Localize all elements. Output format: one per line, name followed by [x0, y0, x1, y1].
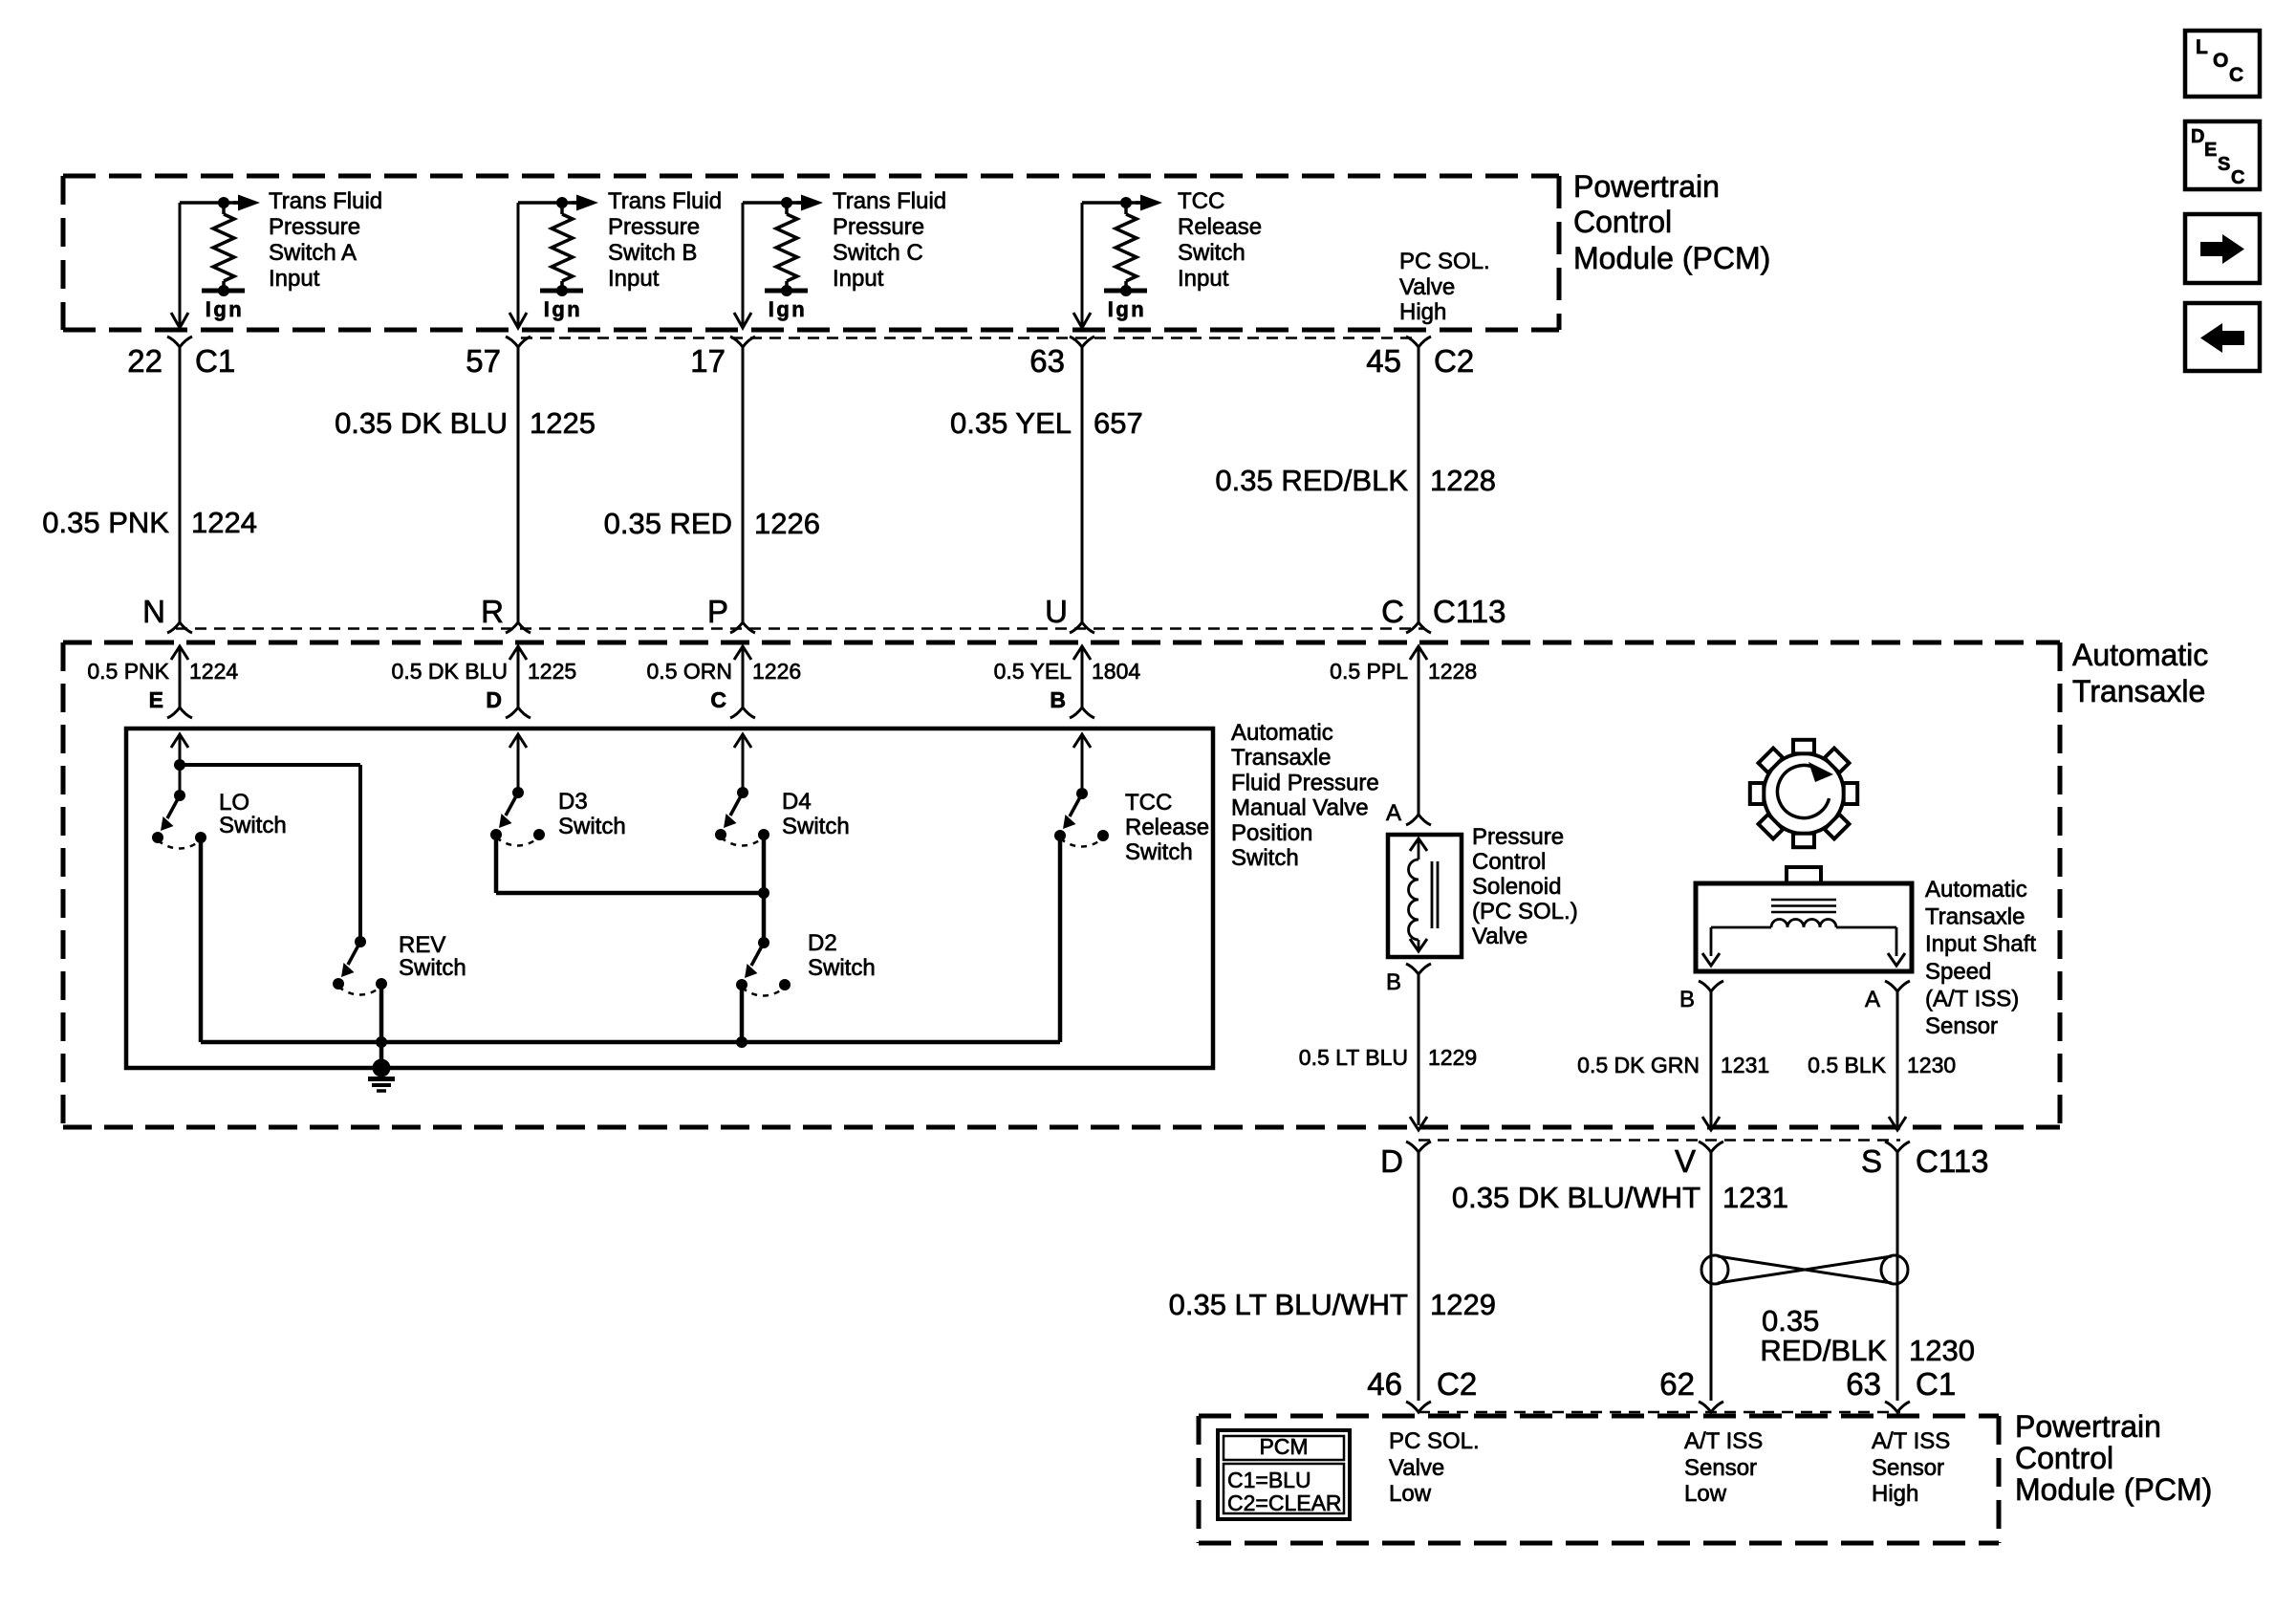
svg-text:Switch: Switch: [558, 814, 626, 839]
svg-text:A/T ISS: A/T ISS: [1872, 1428, 1950, 1454]
svg-text:Pressure: Pressure: [269, 214, 360, 240]
svg-text:1224: 1224: [189, 659, 238, 684]
label: Ign: [769, 297, 808, 321]
label: 0.5 PPL: [1330, 659, 1408, 684]
svg-text:Module (PCM): Module (PCM): [1573, 241, 1770, 275]
junction dot at resistor bottom: [781, 285, 792, 296]
svg-text:A: A: [1386, 800, 1401, 826]
svg-text:17: 17: [690, 343, 726, 379]
svg-text:45: 45: [1366, 343, 1401, 379]
label: pin V: [1675, 1143, 1696, 1179]
junction dot at resistor bottom: [556, 285, 568, 296]
svg-text:C1=BLU: C1=BLU: [1227, 1468, 1311, 1492]
svg-text:Powertrain: Powertrain: [1573, 169, 1720, 204]
svg-text:0.35 YEL: 0.35 YEL: [950, 406, 1072, 440]
label: circuit 1230: [1907, 1053, 1956, 1077]
svg-text:D4: D4: [782, 789, 812, 815]
svg-text:High: High: [1399, 299, 1446, 325]
twisted pair symbol: [1701, 1255, 1908, 1284]
svg-text:1226: 1226: [752, 659, 801, 684]
wire: PCM internal feed, Trans Fluid Switch B: [518, 203, 577, 326]
svg-text:Position: Position: [1231, 820, 1312, 846]
connector C113 pin fork (wire 657): [1070, 622, 1094, 633]
svg-text:Solenoid: Solenoid: [1472, 874, 1561, 900]
svg-text:PC SOL.: PC SOL.: [1389, 1428, 1480, 1454]
junction node (LO switch / REV switch branch): [174, 759, 185, 771]
label: circuit 1224: [189, 659, 238, 684]
svg-text:PC SOL.: PC SOL.: [1399, 249, 1490, 274]
D4 Switch: [715, 787, 769, 846]
svg-text:C: C: [1381, 594, 1404, 629]
label: pin R: [481, 594, 504, 629]
label: sensor pin A: [1865, 987, 1880, 1012]
label: 0.35 RED: [604, 507, 732, 540]
svg-text:0.35 DK BLU/WHT: 0.35 DK BLU/WHT: [1452, 1181, 1700, 1214]
svg-text:Sensor: Sensor: [1925, 1013, 1998, 1039]
label: REV Switch: [399, 932, 466, 981]
svg-text:Trans Fluid: Trans Fluid: [608, 188, 722, 214]
svg-text:Transaxle: Transaxle: [2072, 674, 2205, 708]
pin A fork (ISS sensor): [1885, 981, 1910, 991]
label: Ign: [1108, 297, 1147, 321]
TCC Release Switch (transaxle): [1054, 788, 1109, 847]
label: circuit 1226: [752, 659, 801, 684]
wire: D2 left contact to ground bus: [740, 985, 745, 1042]
label: connector C2 (bottom): [1437, 1366, 1477, 1402]
svg-text:C113: C113: [1916, 1143, 1988, 1179]
svg-text:657: 657: [1094, 406, 1143, 440]
svg-text:22: 22: [127, 343, 162, 379]
svg-text:C1: C1: [195, 343, 235, 379]
wire wire 1226 0.35 RED: [742, 347, 745, 622]
label: circuit 1225: [528, 659, 576, 684]
connector line C113 (thin dashed, bottom): [1419, 1139, 1900, 1142]
Automatic Transaxle box: [63, 642, 2060, 1127]
label: connector C2: [1434, 343, 1474, 379]
label: connector C1 (bottom): [1916, 1366, 1956, 1402]
svg-text:0.5 DK GRN: 0.5 DK GRN: [1577, 1053, 1700, 1077]
label: LO Switch: [219, 790, 287, 838]
pin V fork: [1699, 1142, 1723, 1152]
svg-text:D: D: [2191, 126, 2204, 147]
svg-text:R: R: [481, 594, 504, 629]
svg-text:1230: 1230: [1909, 1334, 1975, 1367]
connector pin 57 fork: [506, 337, 531, 347]
svg-text:C: C: [710, 687, 726, 712]
arrow to Trans Fluid Pressure Switch B Input: [572, 195, 598, 211]
svg-text:D: D: [486, 687, 502, 712]
label: TCC Release Switch Input: [1178, 188, 1262, 292]
D2 Switch: [736, 937, 791, 996]
svg-text:Switch: Switch: [1125, 839, 1193, 865]
svg-text:0.5 BLK: 0.5 BLK: [1808, 1053, 1886, 1077]
svg-text:Switch A: Switch A: [269, 240, 357, 266]
REV Switch: [333, 936, 387, 995]
svg-text:46: 46: [1367, 1366, 1402, 1402]
junction dot at resistor top: [218, 197, 229, 208]
junction dot D2/bus: [736, 1036, 747, 1048]
wire: PCM internal feed, Trans Fluid Switch C: [743, 203, 802, 326]
svg-text:Ign: Ign: [1108, 297, 1147, 321]
label: Trans Fluid Pressure Switch A Input: [269, 188, 382, 292]
label: pin 63: [1029, 343, 1065, 379]
connector C113 pin fork (wire 1224): [167, 622, 192, 633]
svg-text:B: B: [1679, 987, 1695, 1012]
PCM pin 63 fork: [1885, 1402, 1910, 1412]
svg-text:63: 63: [1029, 343, 1065, 379]
wire 1231 0.35 DK BLU/WHT: [1710, 1152, 1713, 1401]
label: Trans Fluid Pressure Switch B Input: [608, 188, 722, 292]
svg-text:1231: 1231: [1721, 1053, 1769, 1077]
Ign supply bar: [540, 289, 583, 294]
arrow: wire 1224 enters transaxle: [171, 646, 188, 707]
LO Switch: [152, 790, 206, 849]
PCM module box (top): [63, 176, 1559, 330]
label: C2=CLEAR: [1227, 1490, 1342, 1515]
svg-text:Input: Input: [1178, 266, 1229, 292]
label: D2 Switch: [808, 930, 876, 981]
label: PC SOL. Valve Low: [1389, 1428, 1480, 1507]
label: circuit 1230 (lower): [1909, 1334, 1975, 1367]
label: pin 63: [1846, 1366, 1881, 1402]
svg-text:Transaxle: Transaxle: [1231, 745, 1331, 771]
svg-text:1225: 1225: [530, 406, 596, 440]
A/T ISS sensor body: [1696, 867, 1912, 971]
label: circuit 1231: [1721, 1053, 1769, 1077]
label: Trans Fluid Pressure Switch C Input: [833, 188, 946, 292]
svg-text:1224: 1224: [191, 506, 257, 539]
label: circuit 657: [1094, 406, 1143, 440]
svg-text:Switch: Switch: [808, 955, 876, 981]
label: 0.5 DK BLU: [392, 659, 508, 684]
label: circuit 1225: [530, 406, 596, 440]
label: pin B: [1386, 969, 1401, 995]
wire: ground bus: [201, 1040, 1060, 1045]
arrow to Trans Fluid Pressure Switch A Input: [233, 195, 260, 211]
pin D fork: [1406, 1142, 1431, 1152]
LOC icon box: [2185, 31, 2260, 97]
connector line C1/C2 (thin dashed, bottom): [1419, 1411, 1900, 1414]
svg-text:O: O: [2213, 50, 2228, 72]
label: RED/BLK: [1760, 1334, 1887, 1367]
wire: D4 right contact down to D2 switch: [762, 835, 767, 943]
label: PCM (legend): [1259, 1434, 1308, 1459]
svg-text:V: V: [1675, 1143, 1696, 1179]
ground: [368, 1042, 395, 1091]
svg-text:U: U: [1045, 594, 1068, 629]
svg-text:1229: 1229: [1430, 1288, 1496, 1321]
pin C fork: [730, 707, 755, 718]
PCM connector legend box: [1218, 1430, 1350, 1519]
wire: PCM internal feed, TCC Switch: [1082, 203, 1141, 326]
wire: pin E into LO switch: [171, 734, 188, 795]
junction dot at resistor top: [1120, 197, 1132, 208]
connector line C113 (thin dashed, top): [176, 627, 1424, 630]
label: pin U: [1045, 594, 1068, 629]
svg-text:Fluid Pressure: Fluid Pressure: [1231, 770, 1379, 795]
connector pin 63 fork: [1070, 337, 1094, 347]
svg-text:High: High: [1872, 1481, 1918, 1507]
arrow: wire 1230 exits transaxle: [1889, 1117, 1906, 1130]
label: C1=BLU: [1227, 1468, 1311, 1492]
PCM pin 46 fork: [1406, 1402, 1431, 1412]
svg-text:Release: Release: [1178, 214, 1262, 240]
svg-text:Pressure: Pressure: [833, 214, 924, 240]
wire: PCM internal feed, Trans Fluid Switch A: [180, 203, 239, 326]
label: pin S: [1861, 1143, 1882, 1179]
label: circuit 1228: [1428, 659, 1477, 684]
DESC icon box: [2185, 121, 2260, 189]
label: D3 Switch: [558, 789, 626, 839]
wire 1230 0.35 RED/BLK: [1896, 1152, 1899, 1401]
svg-text:A/T ISS: A/T ISS: [1684, 1428, 1763, 1454]
junction dot at resistor bottom: [218, 285, 229, 296]
svg-text:D3: D3: [558, 789, 588, 815]
arrow to TCC Release Switch Input: [1136, 195, 1162, 211]
arrow: wire 1229 exits transaxle: [1410, 1117, 1427, 1130]
svg-text:1226: 1226: [754, 507, 820, 540]
svg-text:C: C: [2229, 64, 2243, 86]
svg-text:0.5 LT BLU: 0.5 LT BLU: [1299, 1045, 1408, 1070]
label: circuit 1229 (lower): [1430, 1288, 1496, 1321]
arrow: wire exits PCM downward: [1073, 313, 1091, 328]
svg-text:C2: C2: [1434, 343, 1474, 379]
svg-text:1230: 1230: [1907, 1053, 1956, 1077]
label: circuit 1228: [1430, 464, 1496, 497]
svg-text:Trans Fluid: Trans Fluid: [833, 188, 946, 214]
svg-text:Control: Control: [1573, 205, 1672, 239]
svg-text:Low: Low: [1389, 1481, 1432, 1507]
label: pin 57: [466, 343, 501, 379]
arrow: wire 1226 enters transaxle: [734, 646, 751, 707]
connector C113 pin fork (wire 1225): [506, 622, 531, 633]
Automatic Transaxle Fluid Pressure Manual Valve Position Switch box: [126, 729, 1213, 1068]
pin E fork: [167, 707, 192, 718]
PCM module box (bottom): [1199, 1416, 1999, 1543]
label: 0.35: [1762, 1304, 1819, 1338]
svg-text:Pressure: Pressure: [608, 214, 700, 240]
wire wire 1224 0.35 PNK: [179, 347, 182, 622]
svg-text:Input: Input: [269, 266, 320, 292]
label: Automatic Transaxle Fluid Pressure Manual Valve Position Switch: [1231, 720, 1379, 871]
wire 1230 inside transaxle: [1896, 991, 1899, 1125]
PCM pin 62 fork: [1699, 1402, 1723, 1412]
label: pin E: [149, 687, 163, 712]
pin A fork (PC SOL valve): [1406, 815, 1431, 825]
svg-text:(PC SOL.): (PC SOL.): [1472, 899, 1578, 925]
svg-text:0.5 YEL: 0.5 YEL: [994, 659, 1072, 684]
label: Pressure Control Solenoid (PC SOL.) Valve: [1472, 824, 1578, 949]
svg-text:Switch: Switch: [1178, 240, 1245, 266]
svg-text:62: 62: [1659, 1366, 1695, 1402]
svg-text:Valve: Valve: [1472, 924, 1527, 949]
wire 1229 inside transaxle: [1418, 974, 1420, 1125]
label: pin D: [1380, 1143, 1403, 1179]
label: pin 22: [127, 343, 162, 379]
svg-text:Automatic: Automatic: [1925, 877, 2027, 903]
wire: pin C into D4 switch: [734, 734, 751, 793]
label: Automatic Transaxle: [2072, 638, 2208, 708]
label: circuit 1231 (lower): [1722, 1181, 1788, 1214]
label: 0.5 BLK: [1808, 1053, 1886, 1077]
arrow: wire exits PCM downward: [171, 313, 188, 328]
svg-text:Low: Low: [1684, 1481, 1727, 1507]
label: 0.35 LT BLU/WHT: [1169, 1288, 1408, 1321]
svg-text:63: 63: [1846, 1366, 1881, 1402]
wire wire 1225 0.35 DK BLU: [517, 347, 520, 622]
label: 0.5 PNK: [87, 659, 169, 684]
svg-text:D: D: [1380, 1143, 1403, 1179]
svg-text:C113: C113: [1433, 594, 1505, 629]
wire: TCC left contact to ground bus: [1058, 836, 1063, 1042]
svg-text:D2: D2: [808, 930, 837, 956]
label: A/T ISS Sensor High: [1872, 1428, 1950, 1507]
label: connector C1: [195, 343, 235, 379]
label: circuit 1226: [754, 507, 820, 540]
svg-text:0.35 LT BLU/WHT: 0.35 LT BLU/WHT: [1169, 1288, 1408, 1321]
label: Powertrain Control Module (PCM) top: [1573, 169, 1770, 275]
svg-text:57: 57: [466, 343, 501, 379]
arrow: wire exits PCM downward: [734, 313, 751, 328]
svg-text:0.35 RED/BLK: 0.35 RED/BLK: [1215, 464, 1408, 497]
svg-text:(A/T ISS): (A/T ISS): [1925, 986, 2019, 1012]
connector C113 pin fork (wire 1226): [730, 622, 755, 633]
label: pin 45: [1366, 343, 1401, 379]
svg-text:0.35 DK BLU: 0.35 DK BLU: [335, 406, 508, 440]
svg-text:S: S: [2218, 154, 2230, 175]
svg-text:Speed: Speed: [1925, 959, 1991, 985]
svg-text:Sensor: Sensor: [1684, 1455, 1757, 1481]
svg-text:N: N: [142, 594, 165, 629]
svg-text:Automatic: Automatic: [2072, 638, 2208, 672]
svg-text:Module (PCM): Module (PCM): [2015, 1472, 2212, 1507]
junction dot at resistor bottom: [1120, 285, 1132, 296]
label: 0.35 RED/BLK: [1215, 464, 1408, 497]
svg-text:C2: C2: [1437, 1366, 1477, 1402]
wire: LO switch right contact to ground bus: [199, 838, 204, 1042]
svg-text:Ign: Ign: [544, 297, 583, 321]
label: pin P: [707, 594, 728, 629]
svg-text:C2=CLEAR: C2=CLEAR: [1227, 1490, 1342, 1515]
pin S fork: [1885, 1142, 1910, 1152]
label: connector C113 (bottom): [1916, 1143, 1988, 1179]
svg-text:0.35 PNK: 0.35 PNK: [42, 506, 169, 539]
label: 0.35 YEL: [950, 406, 1072, 440]
pin D fork: [506, 707, 531, 718]
label: Ign: [544, 297, 583, 321]
resistor R3 Trans Fluid Pressure Switch C pull-up: [776, 203, 797, 291]
svg-text:Switch: Switch: [399, 955, 466, 981]
pin B fork (PC SOL valve): [1406, 964, 1431, 974]
label: Automatic Transaxle Input Shaft Speed (A/T ISS) Sensor: [1925, 877, 2036, 1039]
svg-text:L: L: [2196, 36, 2208, 58]
right arrow icon box: [2185, 214, 2260, 283]
svg-text:Trans Fluid: Trans Fluid: [269, 188, 382, 214]
label: circuit 1804: [1092, 659, 1140, 684]
svg-text:Control: Control: [1472, 849, 1546, 875]
svg-text:E: E: [149, 687, 163, 712]
svg-text:Powertrain: Powertrain: [2015, 1409, 2161, 1444]
Ign supply bar: [765, 289, 808, 294]
label: connector C113: [1433, 594, 1505, 629]
svg-text:B: B: [1050, 687, 1066, 712]
pin B fork: [1070, 707, 1094, 718]
label: pin C: [1381, 594, 1404, 629]
connector pin 22 fork: [167, 337, 192, 347]
svg-text:Input Shaft: Input Shaft: [1925, 931, 2036, 957]
svg-text:Switch: Switch: [782, 814, 850, 839]
svg-text:LO: LO: [219, 790, 249, 816]
svg-text:Valve: Valve: [1399, 274, 1455, 300]
label: 0.5 DK GRN: [1577, 1053, 1700, 1077]
connector line C1/C2 (thin dashed): [521, 337, 1419, 339]
label: 0.5 YEL: [994, 659, 1072, 684]
svg-text:Automatic: Automatic: [1231, 720, 1333, 746]
label: pin 62: [1659, 1366, 1695, 1402]
label: sensor pin B: [1679, 987, 1695, 1012]
label: 0.35 DK BLU: [335, 406, 508, 440]
svg-text:Valve: Valve: [1389, 1455, 1444, 1481]
svg-text:Input: Input: [608, 266, 660, 292]
svg-text:B: B: [1386, 969, 1401, 995]
connector C113 pin fork (wire 1228): [1406, 622, 1431, 633]
connector pin 45 fork: [1406, 337, 1431, 347]
connector pin 17 fork: [730, 337, 755, 347]
svg-text:0.35: 0.35: [1762, 1304, 1819, 1338]
svg-text:P: P: [707, 594, 728, 629]
arrow: wire 1225 enters transaxle: [509, 646, 527, 707]
resistor R1 Trans Fluid Pressure Switch A pull-up: [213, 203, 234, 291]
wire: pin B into TCC release switch: [1073, 734, 1091, 794]
label: pin D: [486, 687, 502, 712]
gear icon (input shaft): [1750, 740, 1857, 847]
label: 0.35 DK BLU/WHT: [1452, 1181, 1700, 1214]
arrow: wire exits PCM downward: [509, 313, 527, 328]
wire: D3 left contact to D4 drop: [496, 835, 764, 893]
svg-text:A: A: [1865, 987, 1880, 1012]
svg-text:0.5 DK BLU: 0.5 DK BLU: [392, 659, 508, 684]
label: pin A: [1386, 800, 1401, 826]
label: Ign: [206, 297, 245, 321]
Ign supply bar: [1104, 289, 1147, 294]
label: 0.5 ORN: [647, 659, 732, 684]
svg-text:C1: C1: [1916, 1366, 1956, 1402]
label: circuit 1224: [191, 506, 257, 539]
label: A/T ISS Sensor Low: [1684, 1428, 1763, 1507]
svg-text:1229: 1229: [1428, 1045, 1477, 1070]
svg-text:Switch: Switch: [219, 813, 287, 838]
svg-text:1231: 1231: [1722, 1181, 1788, 1214]
wire: REV switch right contact to ground bus: [379, 984, 384, 1042]
label: circuit 1229: [1428, 1045, 1477, 1070]
pin B fork (ISS sensor): [1699, 981, 1723, 991]
arrow to Trans Fluid Pressure Switch C Input: [796, 195, 823, 211]
left arrow icon box: [2185, 303, 2260, 371]
svg-text:Input: Input: [833, 266, 884, 292]
D3 Switch: [490, 787, 545, 846]
svg-text:Control: Control: [2015, 1441, 2113, 1475]
Ign supply bar: [202, 289, 245, 294]
svg-text:0.5 PNK: 0.5 PNK: [87, 659, 169, 684]
svg-text:TCC: TCC: [1125, 790, 1172, 816]
svg-text:1228: 1228: [1428, 659, 1477, 684]
arrow: wire 1804 enters transaxle: [1073, 646, 1091, 707]
wire wire 1228 0.35 RED/BLK: [1418, 347, 1420, 622]
label: 0.35 PNK: [42, 506, 169, 539]
svg-text:Switch: Switch: [1231, 845, 1299, 871]
svg-text:C: C: [2231, 167, 2244, 188]
svg-text:Manual Valve: Manual Valve: [1231, 795, 1369, 821]
